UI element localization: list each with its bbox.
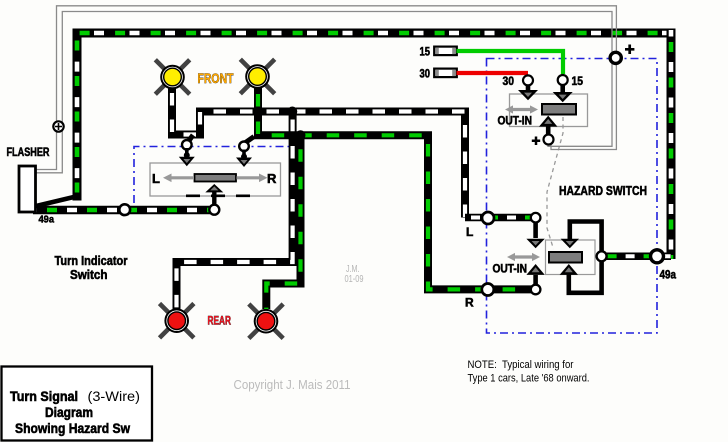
svg-text:R: R [267, 171, 277, 186]
svg-text:15: 15 [572, 76, 584, 88]
svg-text:15: 15 [420, 47, 431, 59]
svg-text:FLASHER: FLASHER [7, 147, 51, 159]
svg-text:49a: 49a [39, 214, 55, 226]
svg-text:L: L [466, 225, 473, 239]
svg-text:Showing Hazard Sw: Showing Hazard Sw [15, 421, 130, 436]
svg-text:REAR: REAR [208, 314, 232, 328]
svg-text:R: R [465, 296, 474, 310]
svg-text:OUT-IN: OUT-IN [498, 116, 533, 128]
svg-text:NOTE: Typical wiring for: NOTE: Typical wiring for [468, 359, 574, 371]
svg-text:Turn Indicator: Turn Indicator [55, 254, 128, 268]
svg-text:49a: 49a [660, 270, 677, 282]
svg-text:30: 30 [420, 69, 431, 81]
svg-text:(3-Wire): (3-Wire) [88, 389, 141, 404]
svg-text:HAZARD SWITCH: HAZARD SWITCH [559, 184, 647, 198]
svg-text:FRONT: FRONT [198, 70, 234, 86]
svg-text:Turn Signal: Turn Signal [10, 389, 78, 404]
svg-text:OUT-IN: OUT-IN [493, 264, 528, 276]
svg-text:Diagram: Diagram [45, 405, 93, 420]
svg-text:Copyright J. Mais 2011: Copyright J. Mais 2011 [234, 378, 351, 392]
svg-text:01-09: 01-09 [345, 274, 364, 285]
svg-text:L: L [152, 171, 160, 186]
svg-text:Switch: Switch [70, 268, 108, 282]
svg-text:Type 1 cars, Late '68 onward.: Type 1 cars, Late '68 onward. [468, 373, 590, 385]
svg-text:30: 30 [503, 76, 515, 88]
